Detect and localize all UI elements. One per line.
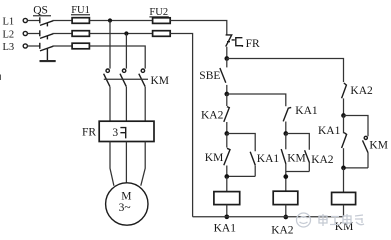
node bus junction column 1: [224, 214, 229, 219]
node D junction below KM column 1: [224, 174, 229, 179]
watermark text 电工电气: [319, 214, 364, 226]
relay contact KA1 (column 3, NO): [318, 116, 347, 168]
wire FR box to motor lead 2: [125, 142, 127, 183]
svg-text:L1: L1: [3, 17, 15, 28]
wire branch top column 2 parallel: [286, 134, 310, 150]
contactor contact KM (column 1, NO self-hold): [205, 134, 230, 177]
svg-text:KA1: KA1: [214, 223, 237, 235]
contactor contact KM (column 3 branch, NO): [363, 136, 388, 168]
wire top control bus to column 3: [227, 59, 344, 83]
fuse FU2-2: [153, 31, 171, 37]
relay contact KA2 (column 3, NO): [342, 83, 373, 116]
relay contact KA1 (column 1 branch, NO): [250, 152, 279, 177]
wire L1 row after FU1: [89, 20, 152, 22]
contactor contact KM (column 2, NO): [281, 134, 306, 192]
wire FR box to motor lead 3: [141, 142, 145, 186]
coil KA1: [214, 192, 240, 205]
svg-text:FR: FR: [246, 38, 260, 50]
node B junction below SBE: [224, 92, 229, 97]
contactor KM main contact pole 3: [139, 69, 145, 121]
wire FR box to motor lead 1: [110, 142, 114, 186]
contactor KM main contact pole 1: [104, 69, 110, 121]
wire mid bus to column 2: [227, 94, 286, 106]
svg-text:KM: KM: [151, 75, 170, 87]
wire L2 row from FU2 down to bottom control bus: [170, 34, 192, 217]
fuse FU1-1: [72, 18, 89, 24]
node A junction below FR: [224, 56, 229, 61]
svg-text:KA1: KA1: [295, 105, 318, 117]
thermal relay FR heater box: [99, 121, 154, 141]
wire L2 row after FU1: [89, 33, 152, 35]
node H junction column 3 bottom: [341, 166, 346, 171]
thermal relay FR NC contact in control rail: [226, 35, 260, 50]
svg-text:KA2: KA2: [271, 225, 294, 237]
relay contact KA1 (column 2, NO): [283, 105, 318, 133]
wire control rail FR to node A: [226, 47, 228, 59]
wire L3 row after FU1, turns down to KM pole 3: [89, 46, 145, 69]
node G junction column 3: [341, 113, 346, 118]
node F junction column 2 bottom: [283, 174, 288, 179]
wire coil KA2 to bus: [285, 205, 287, 217]
fuse FU2-1: [153, 18, 171, 24]
wire branch top column 1 parallel: [227, 134, 255, 152]
wire down to KM pole 2: [125, 34, 127, 69]
svg-text:L2: L2: [3, 30, 15, 41]
svg-text:KM: KM: [369, 139, 388, 151]
wire coil KA1 to bus: [226, 205, 228, 217]
svg-text:QS: QS: [33, 5, 48, 17]
wire to coil KM: [343, 168, 345, 193]
node junction on L2 feeding KM pole 2: [124, 31, 128, 35]
wire L1 row from FU2 to control rail corner: [170, 21, 227, 36]
svg-text:KM: KM: [205, 152, 224, 164]
wire to coil KA1: [226, 177, 228, 192]
relay contact KA2 (column 1, NO): [201, 94, 229, 134]
fuse FU1-2: [72, 31, 89, 37]
switch QS pole 2: [27, 30, 72, 39]
wire branch top column 3 parallel: [344, 116, 369, 137]
watermark logo circle: [297, 213, 311, 227]
svg-text:KA1: KA1: [257, 153, 280, 165]
svg-text:3~: 3~: [119, 202, 131, 214]
switch QS handle linkage: [40, 49, 56, 63]
node C junction below KA2: [224, 131, 229, 136]
svg-text:KA2: KA2: [201, 109, 224, 121]
contactor KM linkage line: [104, 78, 148, 80]
svg-text:SBE: SBE: [199, 70, 220, 82]
contactor KM main contact pole 2: [120, 69, 126, 121]
thermal relay FR heater symbol: [120, 128, 125, 139]
fuse FU1-3: [72, 43, 89, 49]
svg-text:L3: L3: [3, 42, 15, 53]
node L2 terminal: [23, 31, 27, 35]
motor M: [106, 183, 148, 225]
coil KA2: [273, 191, 298, 204]
wire coil KM to bus: [343, 205, 345, 217]
svg-text:KA2: KA2: [311, 154, 334, 166]
pushbutton SBE: [199, 59, 227, 95]
node L3 terminal: [23, 44, 27, 48]
switch QS pole 1: [27, 17, 72, 26]
svg-text:KA1: KA1: [318, 125, 341, 137]
node E junction column 2: [283, 131, 288, 136]
svg-text:3: 3: [112, 127, 118, 139]
wire down to KM pole 1: [109, 21, 111, 69]
node L1 terminal: [23, 18, 27, 22]
switch QS pole 3: [27, 43, 72, 51]
coil KM: [332, 192, 356, 204]
svg-text:KA2: KA2: [350, 85, 373, 97]
wire branch bottom column 3 parallel: [344, 167, 369, 169]
svg-text:KM: KM: [287, 152, 306, 164]
wire branch bottom column 2 parallel: [286, 171, 310, 173]
wire branch bottom column 1 parallel: [227, 175, 255, 177]
node junction on L1 feeding KM pole 1: [108, 18, 112, 22]
edge artifact mark: [0, 75, 1, 81]
wire bottom control bus: [193, 216, 344, 218]
svg-text:FR: FR: [82, 127, 96, 139]
relay contact KA2 (column 2 branch, NO): [305, 150, 334, 171]
svg-text:M: M: [121, 191, 131, 203]
node bus junction column 2: [283, 215, 288, 220]
